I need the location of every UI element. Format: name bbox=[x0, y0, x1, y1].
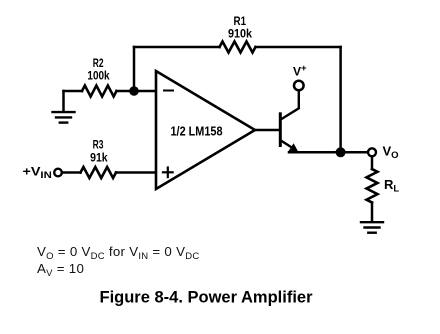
wire (ground stub to R2) bbox=[62, 91, 65, 111]
wire (R2 right lead to op-amp inverting input) bbox=[117, 90, 157, 93]
wire (R3 to op-amp non-inverting input) bbox=[116, 171, 156, 174]
terminal +VIN bbox=[54, 169, 62, 177]
wire (RL to ground) bbox=[371, 203, 374, 222]
svg-text:VO: VO bbox=[383, 143, 399, 161]
wire (op-amp output to transistor base) bbox=[255, 129, 279, 132]
svg-text:Figure 8-4. Power Amplifier: Figure 8-4. Power Amplifier bbox=[99, 289, 313, 307]
svg-text:+VIN: +VIN bbox=[23, 165, 52, 182]
power terminal V+ bbox=[294, 81, 304, 91]
inverting input marker (minus) bbox=[164, 90, 173, 92]
wire (top rail left segment) bbox=[134, 46, 220, 49]
wire (top rail right segment) bbox=[256, 46, 341, 49]
terminal VO bbox=[368, 148, 376, 156]
resistor R3 bbox=[81, 167, 117, 178]
non-inverting input marker (plus) bbox=[163, 168, 173, 178]
resistor R2 bbox=[82, 86, 117, 97]
ground (left, at R2 input) bbox=[53, 112, 75, 123]
node A (inverting input junction) bbox=[129, 86, 139, 96]
wire (+VIN terminal to R3) bbox=[62, 171, 80, 174]
svg-text:91k: 91k bbox=[90, 150, 108, 164]
svg-text:AV = 10: AV = 10 bbox=[37, 261, 84, 279]
svg-text:VO = 0 VDC for VIN = 0 VDC: VO = 0 VDC for VIN = 0 VDC bbox=[37, 244, 200, 262]
resistor R1 bbox=[220, 42, 256, 53]
svg-text:100k: 100k bbox=[87, 68, 109, 82]
transistor Q1 (NPN) bbox=[280, 91, 299, 153]
ground (right, below RL) bbox=[361, 222, 383, 233]
resistor RL bbox=[367, 169, 378, 202]
wire (feedback vertical from inverting node up) bbox=[133, 47, 136, 91]
op-amp U1 (1/2 LM158) bbox=[156, 71, 255, 189]
wire (ground to R2 left lead) bbox=[64, 90, 83, 93]
node VO junction bbox=[336, 147, 346, 157]
wire (right vertical feedback down to output node) bbox=[339, 47, 342, 152]
svg-text:V+: V+ bbox=[293, 63, 307, 79]
svg-text:1/2 LM158: 1/2 LM158 bbox=[171, 123, 223, 138]
wire (emitter to output node) bbox=[289, 151, 336, 154]
wire (node to VO terminal) bbox=[340, 151, 368, 154]
svg-text:910k: 910k bbox=[228, 27, 252, 41]
svg-text:RL: RL bbox=[384, 177, 399, 195]
wire (VO terminal down to RL) bbox=[371, 157, 374, 169]
svg-text:R3: R3 bbox=[93, 138, 104, 152]
